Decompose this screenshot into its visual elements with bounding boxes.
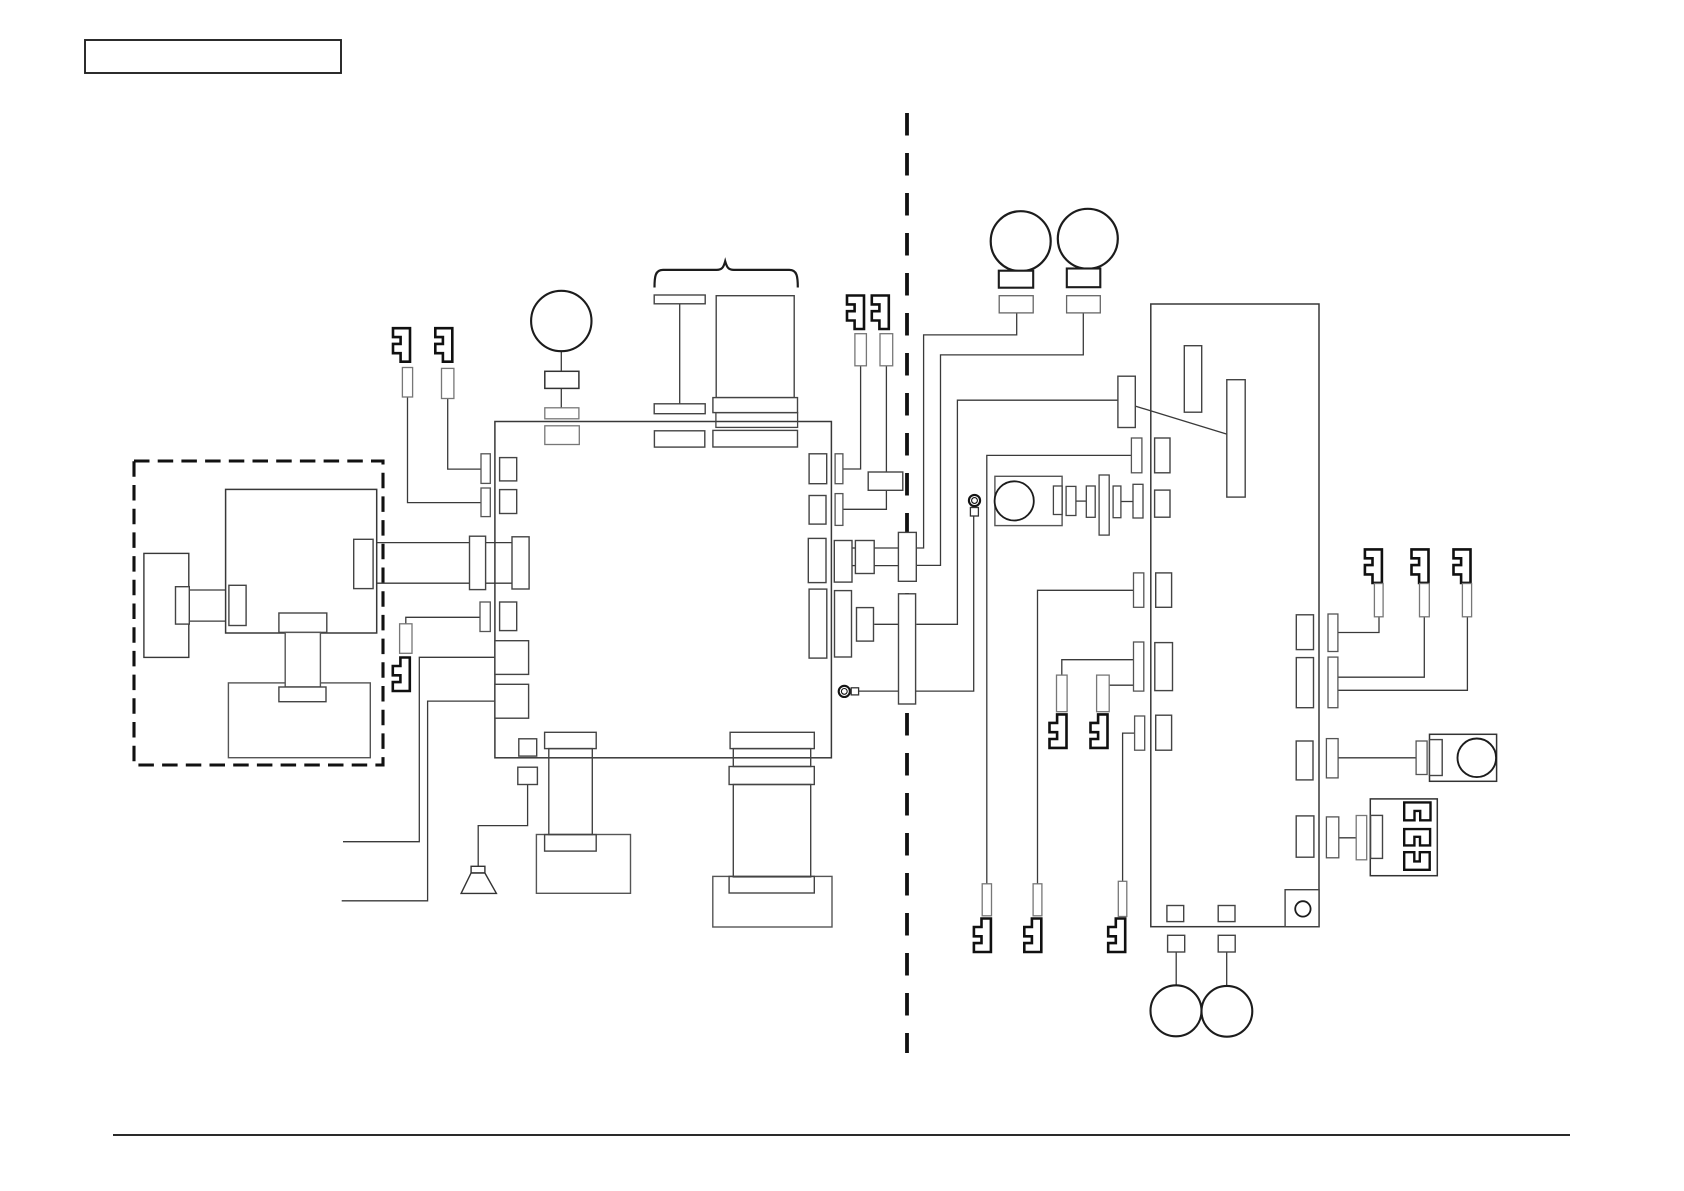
- cable bar2: [899, 594, 916, 704]
- gear end connector: [1133, 484, 1143, 518]
- wire lamp1 to bar: [916, 313, 1016, 548]
- wire gear link 1: [1076, 500, 1086, 502]
- bottom rule: [113, 1134, 1570, 1136]
- wire diagonal link: [1135, 406, 1227, 434]
- solenoid box: [1430, 734, 1497, 781]
- terminal sleeve T3: [400, 624, 412, 654]
- wire wide2 to bar2: [874, 623, 898, 625]
- idler header in box: [654, 431, 704, 447]
- wire harness pair to main box: [373, 542, 511, 544]
- board pad 2: [1218, 906, 1235, 922]
- wire bottom-left run 2: [342, 701, 495, 901]
- wire i-beam center: [679, 304, 681, 404]
- terminal hook TR2: [1412, 549, 1429, 583]
- speaker terminal: [471, 866, 485, 873]
- transformer T2 body: [733, 785, 810, 877]
- terminal hook T5: [872, 296, 889, 330]
- ring terminal G1: [839, 686, 859, 697]
- board connector P1 header: [1156, 573, 1172, 607]
- connector CN-R1 plug: [835, 454, 843, 484]
- control board box (right): [1151, 304, 1319, 927]
- wire trio terminal 2: [1338, 617, 1424, 677]
- roller R2: [1202, 986, 1253, 1037]
- terminal sleeve B1: [982, 884, 991, 916]
- cable bar1: [898, 532, 916, 581]
- terminal sleeve T5: [880, 334, 893, 366]
- carriage box: [144, 553, 189, 657]
- board corner hole: [1295, 901, 1310, 916]
- carriage connector: [176, 587, 190, 624]
- connector CN-L3 plug: [480, 602, 490, 632]
- gear shaft: [1099, 475, 1109, 535]
- fan motor M1: [531, 291, 591, 351]
- block header: [1371, 815, 1383, 858]
- head connector right: [354, 539, 373, 588]
- transformer T1 cap: [545, 732, 597, 748]
- solenoid header: [1430, 740, 1443, 776]
- board connector P0b header: [1155, 490, 1170, 517]
- wire bar2 right riser to board connector: [916, 400, 1118, 624]
- wire board to sensor drop: [987, 455, 1132, 883]
- wire left slim3 to box: [406, 617, 480, 624]
- wire stub out3 to wide1: [852, 547, 857, 549]
- terminal hook TR3: [1454, 549, 1471, 583]
- connector CN-L3 header: [500, 602, 517, 631]
- board connector P3 plug: [1135, 716, 1145, 750]
- board connector R3 plug: [1326, 739, 1338, 778]
- board pad 1: [1167, 906, 1184, 922]
- connector CN-L1 header: [500, 458, 517, 481]
- speaker header in box: [519, 739, 537, 756]
- wire speaker run: [478, 785, 527, 867]
- solenoid coil: [1458, 739, 1497, 778]
- roller R1: [1151, 985, 1202, 1036]
- wire to 3-pin block: [1339, 837, 1356, 839]
- terminal sleeve M1: [1057, 675, 1068, 712]
- transformer T2 band: [729, 767, 814, 785]
- lamp L1 plug: [999, 296, 1033, 313]
- terminal sleeve TR3: [1462, 584, 1471, 617]
- board corner block: [1285, 890, 1319, 927]
- connector CN-R4 plug: [835, 591, 852, 657]
- terminal sleeve T4: [855, 334, 867, 366]
- wire gear link 2: [1121, 501, 1133, 503]
- board connector P0a plug: [1131, 438, 1142, 473]
- board connector R1 header: [1296, 615, 1313, 650]
- terminal sleeve T1: [402, 368, 412, 398]
- board connector R3 header: [1296, 741, 1313, 780]
- sensor roller: [995, 481, 1034, 520]
- connector CN-R1 header: [809, 454, 827, 484]
- IC block 1: [495, 641, 529, 675]
- board connector R1 plug: [1328, 614, 1338, 652]
- wire bottom terminal 2 riser: [1038, 590, 1134, 884]
- block pin 2: [1404, 829, 1430, 845]
- wire mid terminal 1: [1062, 660, 1134, 675]
- IC block 2: [495, 684, 529, 718]
- solenoid plug: [1416, 741, 1427, 775]
- board component U1: [1184, 346, 1201, 413]
- lamp L1 socket: [999, 271, 1033, 288]
- block pin 1: [1404, 802, 1430, 820]
- board connector R2 header: [1296, 658, 1313, 708]
- wire to solenoid box: [1338, 757, 1416, 759]
- board component U2: [1227, 380, 1245, 497]
- motor header in box M2: [713, 430, 798, 447]
- ring terminal G2: [969, 495, 980, 516]
- wire motor stand upper: [560, 351, 562, 371]
- board connector P0a header: [1155, 438, 1170, 473]
- lamp L2 socket: [1067, 269, 1101, 288]
- transformer T1 flange: [545, 835, 597, 852]
- motor mount upper: [545, 371, 579, 388]
- wire bottom terminal 3 riser: [1123, 733, 1135, 881]
- pedestal column: [285, 632, 320, 687]
- connector CN-R2 header: [809, 496, 826, 525]
- print head box: [226, 489, 377, 633]
- lamp L1: [991, 211, 1051, 271]
- wire ring terminal strap: [859, 516, 974, 691]
- connector CN-L2 header: [500, 490, 517, 514]
- wire hook-c2 upper segment: [885, 366, 887, 472]
- transformer T2 cap: [730, 732, 814, 748]
- wire left hook2 to box: [448, 399, 481, 470]
- board connector R4 header: [1296, 816, 1314, 857]
- connector CN-R4 header: [809, 589, 827, 658]
- connector CN-L1 plug: [481, 454, 490, 484]
- connector CN-R3 header: [808, 538, 826, 582]
- terminal hook T4: [847, 296, 864, 330]
- wire hook-c2 lower segment: [843, 490, 887, 509]
- inline connector wide2: [857, 608, 874, 642]
- gear rect 2: [1066, 486, 1076, 515]
- motor flange M2: [713, 398, 798, 413]
- gear rect 1: [1053, 486, 1062, 515]
- wire wide1 to bar1 pair: [873, 547, 898, 549]
- terminal hook TR1: [1365, 549, 1382, 583]
- speaker cone: [461, 873, 496, 893]
- terminal sleeve TR1: [1374, 584, 1383, 617]
- gear rect 3: [1086, 486, 1095, 517]
- harness connector plug (bus): [470, 536, 486, 589]
- wire inner harness pair: [189, 589, 229, 591]
- plug square 1: [1168, 935, 1185, 952]
- block pin 3: [1404, 852, 1430, 870]
- link connector: [1118, 376, 1135, 427]
- terminal sleeve M2: [1097, 675, 1110, 712]
- main unit box (center): [495, 422, 832, 758]
- transformer T1 base: [536, 835, 630, 894]
- terminal hook T2: [435, 328, 452, 362]
- board connector R2 plug: [1328, 657, 1338, 708]
- gear rect 4: [1113, 486, 1121, 518]
- wire trio terminal 3: [1338, 617, 1468, 691]
- dashed enclosure box: [134, 461, 383, 765]
- plug square 2: [1218, 935, 1235, 952]
- wire bottom-left run 1: [343, 657, 495, 841]
- idler top bar: [654, 295, 705, 304]
- transformer T2 base: [713, 876, 832, 927]
- wire hook-c1 to box edge: [843, 366, 861, 469]
- brace: [655, 261, 798, 287]
- speaker plug below box: [518, 767, 538, 784]
- connector CN-L2 plug: [481, 488, 490, 517]
- motor neck section M2: [716, 413, 798, 428]
- pedestal top flange: [279, 613, 327, 632]
- transformer T1 body: [549, 749, 593, 835]
- terminal hook B2: [1024, 919, 1041, 953]
- sensor box: [995, 476, 1062, 525]
- pedestal base box: [228, 683, 370, 758]
- terminal sleeve TR2: [1420, 584, 1430, 617]
- terminal block housing: [1370, 799, 1437, 876]
- wire mid terminal 2: [1109, 684, 1133, 686]
- harness connector inner: [229, 585, 246, 625]
- lamp L2: [1058, 209, 1118, 269]
- idler bottom bar: [654, 404, 705, 414]
- wire left hook1 to box: [408, 397, 482, 503]
- transformer T2 neck: [733, 749, 810, 767]
- terminal hook M1: [1050, 714, 1067, 748]
- wire square2 to roller2: [1226, 952, 1228, 986]
- harness connector header (bus): [512, 537, 529, 589]
- terminal hook B1: [974, 919, 991, 953]
- board connector P1 plug: [1134, 573, 1144, 607]
- motor mount lower: [545, 408, 579, 419]
- connector CN-R2 plug: [835, 494, 843, 526]
- terminal hook B3: [1108, 919, 1125, 953]
- terminal hook T3: [393, 658, 410, 692]
- terminal hook M2: [1091, 714, 1108, 748]
- board connector P3 header: [1156, 715, 1172, 750]
- terminal sleeve B3: [1118, 881, 1127, 916]
- motor header in box: [545, 426, 580, 445]
- wire trio terminal 1: [1338, 617, 1379, 633]
- title block (empty): [85, 40, 341, 73]
- board connector P2 header: [1155, 643, 1173, 691]
- transformer T2 lower band: [729, 876, 814, 893]
- wire motor stand lower: [560, 388, 562, 407]
- board connector R4 plug: [1326, 817, 1338, 858]
- terminal sleeve T2: [442, 368, 454, 398]
- dashed section divider: [905, 113, 909, 1053]
- wire lamp2 to bar: [916, 313, 1083, 566]
- lamp L2 plug: [1067, 296, 1101, 313]
- motor body M2: [716, 296, 794, 398]
- ferrite block: [868, 472, 903, 490]
- inline connector wide1: [855, 541, 874, 574]
- wire square1 to roller1: [1175, 952, 1177, 985]
- block plug: [1356, 816, 1367, 860]
- terminal sleeve B2: [1033, 884, 1042, 916]
- terminal hook T1: [393, 328, 410, 362]
- board connector P2 plug: [1134, 642, 1144, 691]
- pedestal lower flange: [279, 687, 326, 702]
- connector CN-R3 plug: [834, 541, 852, 583]
